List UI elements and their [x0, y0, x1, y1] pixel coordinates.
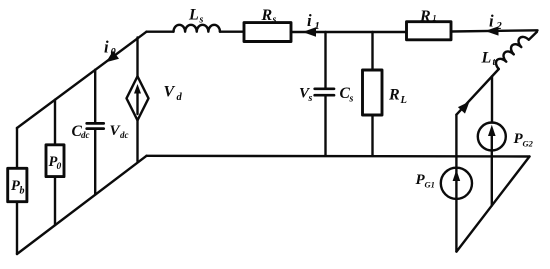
wire right panel diagonal [457, 157, 530, 252]
svg-text:dc: dc [81, 130, 90, 140]
svg-text:G2: G2 [523, 139, 534, 149]
svg-text:i: i [489, 12, 494, 31]
arrow PG2 [488, 125, 496, 136]
wire Lt diagonal [456, 69, 498, 115]
arrow i2 [485, 26, 499, 35]
wire RL branch [371, 32, 373, 70]
wire Cs branch [324, 32, 326, 88]
svg-text:1: 1 [433, 14, 437, 23]
source PG1 [441, 168, 472, 199]
arrow PG1 [453, 170, 461, 181]
wire right vertical [455, 115, 457, 252]
source Vd diamond [127, 76, 149, 120]
wire top left horizontal [147, 31, 174, 33]
svg-text:0: 0 [57, 162, 62, 172]
arrow Lt current [458, 102, 470, 114]
svg-text:L: L [188, 7, 199, 24]
wire Ls to Rs [220, 31, 244, 33]
wire PG2 branch bottom [491, 151, 493, 206]
wire P0 branch [54, 100, 56, 225]
svg-text:R: R [419, 8, 431, 25]
capacitor Cs [315, 87, 334, 90]
svg-text:L: L [481, 50, 492, 67]
wire Cdc branch [94, 70, 96, 122]
source PG2 [478, 123, 506, 151]
load P0 [46, 145, 64, 177]
svg-text:d: d [177, 92, 183, 103]
wire R1 to corner [451, 30, 538, 31]
wire left panel bottom diagonal [17, 156, 147, 254]
svg-text:V: V [164, 84, 176, 101]
svg-text:L: L [400, 95, 407, 106]
svg-text:s: s [349, 94, 354, 105]
wire Rs to R1 [291, 31, 407, 33]
svg-text:b: b [20, 186, 25, 197]
wire left panel left edge [16, 128, 18, 254]
load Pb [8, 168, 27, 201]
arrow i0 [106, 51, 119, 63]
svg-text:i: i [307, 11, 312, 30]
svg-text:G1: G1 [425, 180, 435, 190]
wire left panel top diagonal [17, 32, 147, 128]
resistor RL [363, 70, 383, 115]
svg-text:1: 1 [315, 21, 320, 32]
svg-text:0: 0 [111, 47, 117, 58]
arrow i1 [303, 27, 317, 37]
svg-text:2: 2 [496, 21, 503, 32]
svg-text:i: i [104, 38, 109, 57]
capacitor Cdc [87, 122, 104, 125]
arrow Vd [134, 84, 141, 94]
wire PG2 branch top [491, 76, 493, 122]
svg-text:s: s [308, 93, 313, 104]
svg-text:R: R [261, 7, 273, 24]
resistor R1 [407, 22, 452, 40]
wire bottom [147, 155, 530, 158]
resistor Rs [244, 23, 291, 42]
inductor Ls [174, 25, 220, 32]
inductor Lt [493, 26, 536, 69]
svg-text:R: R [388, 87, 400, 104]
svg-text:s: s [272, 15, 277, 26]
wire Vd branch [136, 38, 138, 77]
svg-text:s: s [199, 15, 204, 26]
svg-text:dc: dc [120, 130, 129, 140]
